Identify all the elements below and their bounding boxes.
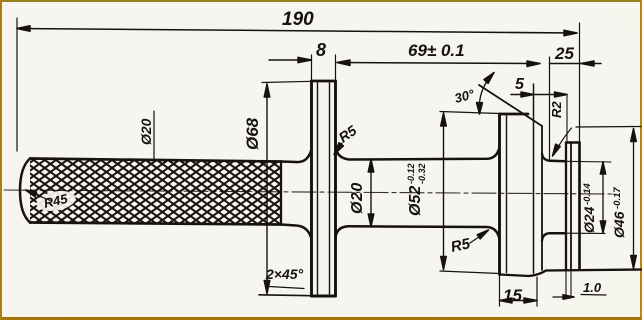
svg-text:Ø24: Ø24 bbox=[581, 206, 597, 233]
svg-text:-0.12: -0.12 bbox=[406, 163, 416, 184]
dim phi24 bbox=[602, 162, 604, 234]
30deg chamfer line extended bbox=[479, 85, 542, 126]
svg-text:25: 25 bbox=[554, 44, 574, 63]
svg-text:Ø20: Ø20 bbox=[138, 118, 154, 145]
R5 upper leader bbox=[336, 143, 343, 153]
shaft phi20 bbox=[336, 146, 500, 160]
svg-text:-0.17: -0.17 bbox=[612, 187, 623, 209]
dim phi52 vertical bbox=[443, 113, 445, 270]
R45 white halo patch on knurl bbox=[35, 188, 78, 214]
phi46 collar with 1.0 groove bbox=[565, 143, 567, 270]
svg-text:R5: R5 bbox=[449, 235, 472, 256]
dim phi68 vertical bbox=[266, 84, 268, 294]
phi20 handle leader bbox=[153, 111, 155, 160]
svg-text:Ø46: Ø46 bbox=[611, 211, 627, 238]
dim phi46 bbox=[633, 129, 635, 269]
svg-text:5: 5 bbox=[515, 76, 525, 93]
phi52 right face bbox=[541, 126, 543, 270]
svg-text:69± 0.1: 69± 0.1 bbox=[408, 41, 465, 60]
svg-text:R5: R5 bbox=[336, 122, 360, 145]
svg-text:1.0: 1.0 bbox=[583, 280, 602, 295]
dim 8 bbox=[269, 59, 311, 61]
svg-text:15: 15 bbox=[503, 286, 522, 305]
centerline bbox=[4, 190, 612, 194]
dim 1.0 bbox=[553, 296, 574, 298]
svg-text:30°: 30° bbox=[453, 86, 477, 106]
label dia52 with tolerances bbox=[406, 163, 427, 216]
handle end cap R45 bbox=[20, 159, 30, 223]
label dia46 with tolerance bbox=[611, 187, 627, 238]
dim 5 bbox=[511, 94, 567, 96]
svg-text:R2: R2 bbox=[549, 101, 564, 118]
svg-text:-0.14: -0.14 bbox=[582, 183, 593, 205]
svg-text:-0.32: -0.32 bbox=[417, 163, 427, 184]
neck groove phi24 edges bbox=[550, 160, 566, 163]
R45 leader bbox=[28, 191, 50, 201]
flange top edge extension bbox=[262, 81, 312, 82]
R2 leader bbox=[554, 128, 572, 155]
label dia24 with tolerance bbox=[581, 183, 597, 233]
dim 25 bbox=[550, 63, 602, 65]
svg-text:Ø52: Ø52 bbox=[407, 186, 424, 216]
svg-text:8: 8 bbox=[316, 40, 326, 60]
dim 69+-0.1 bbox=[337, 63, 540, 64]
dim phi20 shaft bbox=[370, 159, 372, 227]
2x45 underline bbox=[269, 287, 304, 289]
svg-text:2×45°: 2×45° bbox=[265, 266, 304, 282]
svg-text:Ø20: Ø20 bbox=[349, 182, 366, 214]
flange bottom edge extension bbox=[259, 294, 312, 297]
svg-text:190: 190 bbox=[282, 9, 314, 30]
dim 190 bbox=[16, 18, 18, 151]
30deg arc bbox=[479, 73, 494, 115]
R5 lower leader bbox=[470, 231, 488, 243]
knurled handle body bbox=[30, 160, 281, 225]
svg-text:Ø68: Ø68 bbox=[243, 117, 262, 150]
handle neck into flange bbox=[281, 149, 312, 162]
flange phi68 bbox=[310, 81, 313, 296]
dim 15 bbox=[500, 276, 538, 306]
phi52 disc bbox=[498, 114, 501, 275]
phi52 bottom and bottom-right outline bbox=[500, 270, 642, 277]
